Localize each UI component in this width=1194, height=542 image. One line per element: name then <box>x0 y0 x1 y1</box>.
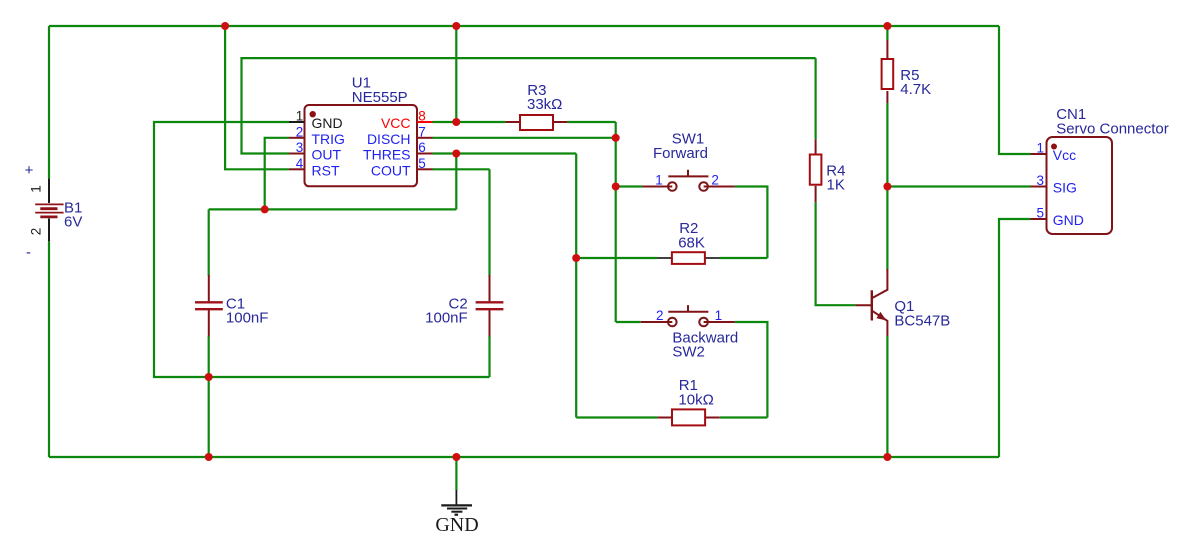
svg-text:1: 1 <box>29 185 44 193</box>
svg-text:3: 3 <box>1036 173 1044 188</box>
junction top rail x887 <box>883 22 891 30</box>
junction VCC pin8 <box>452 118 460 126</box>
wire COUT pin5 row <box>433 168 490 170</box>
junction top rail x225 <box>221 22 229 30</box>
svg-text:-: - <box>26 244 31 261</box>
capacitor C2 100nF <box>476 275 504 336</box>
wire OUT pin3 to R4 top rail <box>242 58 816 153</box>
capacitor C1 100nF <box>195 275 223 336</box>
junction TRIG node <box>261 205 269 213</box>
svg-text:1K: 1K <box>827 177 845 194</box>
svg-text:6: 6 <box>418 140 426 155</box>
wire bottom cap row C1-C2 <box>209 376 490 378</box>
connector CN1 Servo <box>1047 137 1113 234</box>
svg-text:1: 1 <box>655 172 663 187</box>
svg-text:GND: GND <box>1053 212 1084 228</box>
svg-text:2: 2 <box>296 124 304 139</box>
wire Q1 emitter to bottom rail <box>886 336 888 457</box>
svg-text:SW2: SW2 <box>672 344 705 361</box>
svg-text:2: 2 <box>711 172 719 187</box>
svg-text:DISCH: DISCH <box>367 131 411 147</box>
pin 8 stub VCC <box>417 121 433 123</box>
wire C1 upper vertical <box>208 209 210 275</box>
svg-text:GND: GND <box>435 514 478 536</box>
svg-text:68K: 68K <box>678 234 705 251</box>
svg-text:100nF: 100nF <box>226 310 269 327</box>
junction top rail x456 <box>452 22 460 30</box>
pin 5 stub COUT <box>417 168 433 170</box>
wire DISCH vertical (R3 to SW2 row) <box>615 122 617 322</box>
svg-text:RST: RST <box>312 162 340 178</box>
svg-text:1: 1 <box>296 109 304 124</box>
wire bottom rail GND <box>49 456 999 458</box>
svg-text:TRIG: TRIG <box>312 131 345 147</box>
wire left rail upper (to battery +) <box>48 26 50 178</box>
wire RST pin4 to top rail <box>225 26 289 169</box>
pin 3 stub OUT <box>289 153 305 155</box>
pin 1 stub CN1 <box>1031 153 1047 155</box>
svg-text:8: 8 <box>418 109 426 124</box>
resistor R2 68K <box>657 252 720 264</box>
svg-text:6V: 6V <box>64 214 82 231</box>
transistor Q1 BC547B <box>856 269 888 336</box>
svg-text:100nF: 100nF <box>425 310 468 327</box>
svg-text:Servo Connector: Servo Connector <box>1056 120 1169 137</box>
battery B1 6V <box>35 178 63 241</box>
pin 4 stub RST <box>289 168 305 170</box>
wire THRES pin6 row <box>433 152 577 154</box>
junction bottom rail GND <box>452 453 460 461</box>
junction SW1 row <box>612 183 620 191</box>
ground symbol <box>441 490 472 515</box>
wire top rail VCC <box>49 25 999 27</box>
wire R5 bottom to Q1 collector <box>886 103 888 270</box>
resistor R5 4.7K <box>882 40 894 103</box>
pin 2 stub TRIG <box>289 137 305 139</box>
svg-text:5: 5 <box>1036 206 1044 221</box>
wire DISCH pin7 row <box>433 137 616 139</box>
svg-text:4: 4 <box>296 156 304 171</box>
wire TRIG node row <box>209 208 457 210</box>
svg-text:VCC: VCC <box>381 115 411 131</box>
pin 5 stub CN1 <box>1031 218 1047 220</box>
pin 7 stub DISCH <box>417 137 433 139</box>
switch SW1 Forward <box>642 170 735 191</box>
junction bottom rail x887 <box>883 453 891 461</box>
svg-text:1: 1 <box>715 308 723 323</box>
resistor R4 1K <box>810 139 822 202</box>
svg-text:1: 1 <box>1036 141 1044 156</box>
svg-text:2: 2 <box>29 228 44 236</box>
wire R1 row right <box>720 416 768 418</box>
switch SW2 Backward <box>641 305 735 326</box>
wire THRES junction vertical <box>455 154 457 210</box>
pin 1 stub GND <box>289 121 305 123</box>
svg-text:5: 5 <box>418 156 426 171</box>
op-amp U1 NE555P body <box>305 105 418 186</box>
wire pin8 row to R3 <box>433 121 506 123</box>
wire left rail lower (battery - to bottom) <box>48 241 50 457</box>
wire C1 lower vertical to bottom rail <box>208 336 210 457</box>
junction DISCH row <box>612 134 620 142</box>
svg-text:10kΩ: 10kΩ <box>678 391 713 408</box>
resistor R3 33k <box>506 115 568 130</box>
wire R2 row right <box>720 257 768 259</box>
junction bottom rail x208 <box>205 453 213 461</box>
wire THRES vertical to R1 row <box>575 154 577 418</box>
wire SW1 right down to R2 <box>735 187 768 259</box>
wire R5 top <box>886 26 888 40</box>
wire R4 lower vertical to Q1 base <box>816 202 856 305</box>
wire VCC pin8 vertical to top rail <box>455 26 457 122</box>
resistor R1 10k <box>657 409 719 425</box>
wire R3 right to DISCH vertical <box>567 121 615 123</box>
svg-text:COUT: COUT <box>371 162 411 178</box>
wire R4 upper vertical <box>814 58 816 139</box>
wire right bottom vertical to CN1 pin5 <box>999 219 1031 457</box>
pin 3 stub CN1 <box>1031 186 1047 188</box>
wire GND pin1 down-left <box>154 122 289 377</box>
wire SW2 right down to R1 <box>735 322 768 418</box>
junction C1 bottom <box>205 373 213 381</box>
wire right top vertical to CN1 pin1 <box>999 26 1031 154</box>
svg-text:THRES: THRES <box>363 147 410 163</box>
svg-text:Vcc: Vcc <box>1053 147 1076 163</box>
svg-text:BC547B: BC547B <box>894 312 950 329</box>
svg-text:GND: GND <box>312 115 343 131</box>
wire GND symbol stem <box>455 457 457 490</box>
junction SIG row <box>883 183 891 191</box>
wire C2 upper vertical <box>488 169 490 275</box>
svg-text:33kΩ: 33kΩ <box>527 96 562 113</box>
svg-text:SIG: SIG <box>1053 179 1077 195</box>
svg-text:Forward: Forward <box>653 145 708 162</box>
junction THRES row <box>452 150 460 158</box>
wire TRIG pin2 down to node <box>265 138 289 210</box>
junction R2 row <box>572 254 580 262</box>
wire SW2 left <box>616 321 641 323</box>
wire SIG row to CN1 pin3 <box>887 185 1030 187</box>
pin 6 stub THRES <box>417 153 433 155</box>
svg-text:7: 7 <box>418 124 426 139</box>
svg-text:2: 2 <box>656 308 664 323</box>
wire C2 lower vertical <box>488 336 490 377</box>
svg-text:3: 3 <box>296 140 304 155</box>
svg-text:NE555P: NE555P <box>352 89 408 106</box>
svg-text:4.7K: 4.7K <box>900 81 931 98</box>
wire SW1 left <box>616 185 643 187</box>
svg-text:OUT: OUT <box>312 147 342 163</box>
svg-text:+: + <box>25 162 34 179</box>
wire R2 row left <box>576 257 657 259</box>
wire R1 row left <box>576 416 657 418</box>
